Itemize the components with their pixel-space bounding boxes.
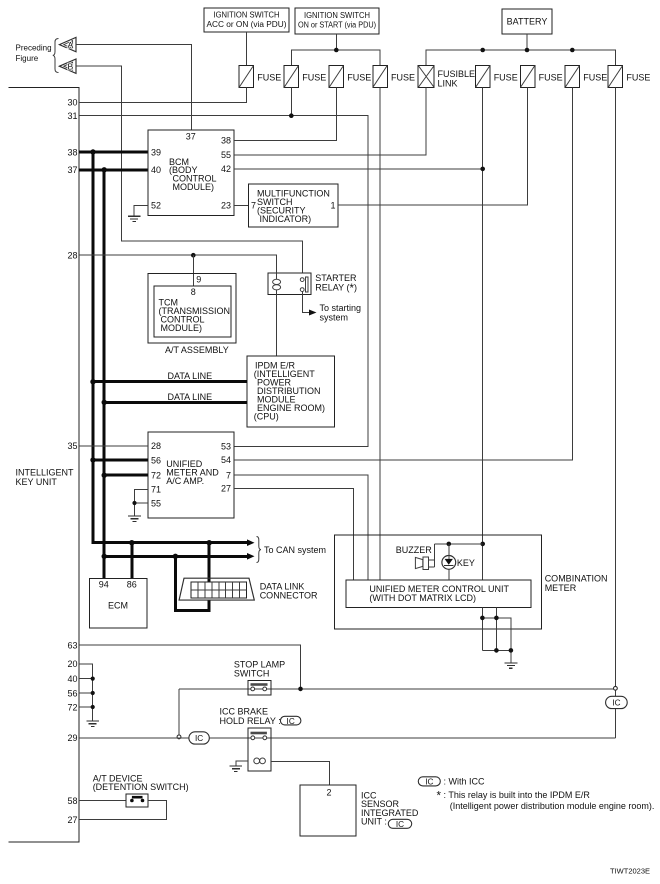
fuse F6 column <box>482 88 484 581</box>
svg-text:FUSE: FUSE <box>347 73 371 83</box>
svg-text:(WITH DOT MATRIX LCD): (WITH DOT MATRIX LCD) <box>369 593 476 603</box>
ground at ICC relay coil <box>229 766 242 771</box>
A/T device detention switch <box>126 794 148 807</box>
svg-text:52: 52 <box>151 201 161 211</box>
fuse F1 <box>239 66 254 88</box>
starter relay coil <box>273 273 281 295</box>
wire battery rail <box>426 50 615 66</box>
wire 63 to stop lamp circuit <box>79 645 301 689</box>
wire unified meter pin 55 to ground <box>135 503 149 516</box>
wire starter relay coil to IPDM <box>275 295 277 356</box>
svg-text:54: 54 <box>221 455 231 465</box>
svg-text:FUSE: FUSE <box>583 73 607 83</box>
ground at unified meter <box>128 516 141 521</box>
svg-text:40: 40 <box>67 674 77 684</box>
svg-text:To starting: To starting <box>320 303 362 313</box>
bold wire CAN-L to unified meter pin 72 <box>104 474 148 477</box>
svg-text:ACC or ON (via PDU): ACC or ON (via PDU) <box>207 20 287 29</box>
svg-text:IC: IC <box>425 778 433 787</box>
svg-text:38: 38 <box>67 147 77 157</box>
junction battery rail / fuse 8 <box>570 48 575 53</box>
wire 30 to fuse F1 <box>79 88 246 103</box>
BCM (body control module) U:BCM <box>148 130 234 216</box>
svg-text:FUSE: FUSE <box>539 73 563 83</box>
svg-text:A/T ASSEMBLY: A/T ASSEMBLY <box>165 345 229 355</box>
svg-text:BUZZER: BUZZER <box>396 545 433 555</box>
junction data line 1 / CAN-H <box>90 379 95 384</box>
wire buzzer feed <box>429 544 435 567</box>
svg-text:7: 7 <box>251 201 256 211</box>
svg-text:IC: IC <box>287 717 295 726</box>
connector circle on line 29 <box>177 735 181 739</box>
svg-text:Figure: Figure <box>16 54 39 63</box>
connector triangle B <box>59 59 76 73</box>
svg-text:KEY UNIT: KEY UNIT <box>16 477 58 487</box>
svg-text:37: 37 <box>67 165 77 175</box>
svg-text:A/C AMP.: A/C AMP. <box>166 476 204 486</box>
svg-text:system: system <box>320 313 349 323</box>
svg-text:28: 28 <box>151 441 161 451</box>
wire unified meter pin 7 to combination meter <box>234 475 368 580</box>
svg-text:CONNECTOR: CONNECTOR <box>260 591 318 601</box>
svg-text:39: 39 <box>151 147 161 157</box>
starter relay box <box>268 273 311 294</box>
svg-text:72: 72 <box>151 471 161 481</box>
wire UMCU ground jumper top <box>482 618 511 651</box>
fuse F6 <box>475 66 490 88</box>
svg-text:56: 56 <box>151 455 161 465</box>
junction ground leg1 top <box>480 616 485 621</box>
wire key LED to UMCU <box>448 569 450 580</box>
CAN-H bus vertical (bold) <box>93 152 247 543</box>
wire from connector B to starter relay contact <box>76 66 302 272</box>
svg-text:SWITCH: SWITCH <box>234 668 270 678</box>
svg-text:LINK: LINK <box>438 79 458 89</box>
svg-text:METER: METER <box>545 583 577 593</box>
svg-text:ECM: ECM <box>108 601 128 611</box>
junction stub 72 <box>91 705 95 709</box>
starter relay label <box>315 273 357 295</box>
ECM box <box>89 579 147 629</box>
svg-text:IC: IC <box>396 820 404 829</box>
connector circle on F9 column <box>614 686 618 690</box>
svg-text:ON or START (via PDU): ON or START (via PDU) <box>298 20 376 29</box>
svg-text:7: 7 <box>226 471 231 481</box>
wire UMCU ground rail bottom <box>482 650 511 663</box>
svg-text:38: 38 <box>221 136 231 146</box>
ground at BCM pin 52 <box>128 216 141 221</box>
svg-text:28: 28 <box>67 251 77 261</box>
svg-text:UNIT :: UNIT : <box>361 817 387 827</box>
svg-text:(CPU): (CPU) <box>254 411 279 421</box>
svg-text:IGNITION SWITCH: IGNITION SWITCH <box>214 11 280 20</box>
svg-text:COMBINATION: COMBINATION <box>545 574 608 584</box>
svg-text:56: 56 <box>67 688 77 698</box>
junction ground leg2 bottom <box>494 648 499 653</box>
svg-text:(DETENTION SWITCH): (DETENTION SWITCH) <box>93 782 189 792</box>
data link connector <box>179 578 254 600</box>
wire stub pin 56 <box>79 692 93 694</box>
wire 35 to unified meter pin 28 <box>79 445 148 447</box>
wire UMCU ground leg 2 <box>495 608 497 651</box>
ICC sensor label <box>361 791 419 827</box>
bold wire CAN2 to DLC bottom <box>175 556 209 610</box>
svg-text:35: 35 <box>67 441 77 451</box>
fuse F3 <box>329 66 344 88</box>
svg-text:20: 20 <box>67 659 77 669</box>
wire detention switch to pin 27 <box>79 801 167 820</box>
data line wire 2 (bold) <box>104 401 247 404</box>
fuse F9 <box>608 66 623 88</box>
junction CAN2/ECM94 <box>102 554 107 559</box>
intelligent key unit box (open left) <box>9 88 80 843</box>
data line wire 1 (bold) <box>93 380 247 383</box>
unified meter control unit box <box>346 580 531 608</box>
A/T device label <box>93 774 189 792</box>
ignition switch ON/START source box <box>295 8 379 34</box>
junction CAN-L pin72 <box>102 473 107 478</box>
junction F6/BCM42 <box>480 167 485 172</box>
svg-text:23: 23 <box>221 201 231 211</box>
ground at stub pins <box>86 721 99 726</box>
TCM (transmission control module) <box>154 286 231 337</box>
junction wire28/TCM <box>191 253 196 258</box>
junction CAN1/DLC <box>207 540 212 545</box>
svg-text:To CAN system: To CAN system <box>264 545 326 555</box>
wire 58 to detention switch <box>79 800 126 802</box>
wire from connector A to BCM pin 37 <box>76 45 191 130</box>
wire fuse F2 drop <box>290 88 292 116</box>
wire unified meter pin 54 from fuse F8 <box>234 88 572 460</box>
svg-text:27: 27 <box>221 484 231 494</box>
buzzer symbol <box>415 557 428 570</box>
svg-text:IGNITION SWITCH: IGNITION SWITCH <box>304 11 370 20</box>
svg-text:55: 55 <box>221 150 231 160</box>
IC oval after hold relay label <box>280 716 301 726</box>
wire unified meter pin 71 to ground <box>135 489 149 503</box>
svg-text:FUSE: FUSE <box>626 73 650 83</box>
wire BCM pin 52 to ground <box>134 205 148 216</box>
fuse F4 column to combination meter <box>379 88 381 581</box>
svg-text:IC: IC <box>195 734 203 743</box>
junction CAN-L <box>102 167 107 172</box>
svg-text:(Intelligent power distributio: (Intelligent power distribution module e… <box>450 801 655 811</box>
wire BCM pin 38 from fuse F3 <box>234 88 336 141</box>
junction CAN1/ECM86 <box>129 540 134 545</box>
wire key illumination rail <box>435 543 483 545</box>
svg-text:37: 37 <box>186 132 196 142</box>
wire 29 <box>79 737 615 739</box>
junction fuse F6 / key illumination <box>480 542 485 547</box>
svg-text:72: 72 <box>67 702 77 712</box>
junction CAN-H <box>90 149 95 154</box>
junction ground leg3 bottom <box>509 648 514 653</box>
svg-text:INTELLIGENT: INTELLIGENT <box>16 467 75 477</box>
svg-text:1: 1 <box>330 200 335 210</box>
svg-text:MODULE): MODULE) <box>173 182 215 192</box>
IC oval on F9 column <box>606 696 628 708</box>
combination meter label <box>545 574 608 594</box>
junction stub 56 <box>91 691 95 695</box>
svg-text:: With ICC: : With ICC <box>444 777 486 787</box>
IC oval after unit label <box>388 819 411 829</box>
key LED indicator <box>442 556 456 570</box>
wire relay coil to ICC sensor <box>271 762 329 786</box>
wire stub pin 40 <box>79 678 93 680</box>
svg-text:A: A <box>68 40 74 50</box>
bold wire CAN1 to DLC top <box>208 543 211 582</box>
bold wire CAN1 to ECM pin 86 <box>130 543 133 579</box>
svg-text:DATA LINE: DATA LINE <box>168 371 213 381</box>
junction battery rail / battery feed <box>525 48 530 53</box>
wire stop lamp drop to line 29 <box>178 689 180 735</box>
svg-text:KEY: KEY <box>457 558 475 568</box>
svg-text:30: 30 <box>67 98 77 108</box>
junction stub 40 <box>91 677 95 681</box>
brace for preceding figure <box>53 39 59 73</box>
junction wire31/fuse2 <box>289 113 294 118</box>
wire ACC feed to fuse 1 <box>245 32 247 66</box>
junction CAN2/DLC <box>173 554 178 559</box>
combination meter box <box>335 535 542 629</box>
svg-text:INDICATOR): INDICATOR) <box>260 214 312 224</box>
wire 28 to starter relay coil <box>79 255 276 272</box>
svg-text:9: 9 <box>196 274 201 284</box>
junction ground leg2 top <box>494 616 499 621</box>
svg-text:STARTER: STARTER <box>315 273 357 283</box>
multifunction switch (security indicator) <box>249 184 339 227</box>
brace to CAN system <box>257 537 262 563</box>
ICC brake hold relay box <box>248 728 271 771</box>
svg-text:40: 40 <box>151 165 161 175</box>
CAN-L branch to arrow (bold) <box>104 555 247 558</box>
junction key LED <box>447 542 452 547</box>
svg-text:58: 58 <box>67 796 77 806</box>
wire starter relay contact to starting system <box>302 292 309 313</box>
fuse F8 <box>565 66 580 88</box>
CAN-L bus vertical (bold) <box>103 170 106 579</box>
wire stop lamp row <box>179 688 615 690</box>
wire stub pin 72 <box>79 706 93 708</box>
arrow CAN line 2 <box>247 553 255 560</box>
arrow CAN line 1 <box>247 539 255 546</box>
CAN wire 37 (bold) to BCM pin 40 <box>79 168 148 171</box>
ICC brake hold relay label <box>220 707 281 726</box>
stop lamp switch label <box>234 659 285 678</box>
battery box <box>502 9 552 34</box>
svg-text:63: 63 <box>67 641 77 651</box>
IPDM E/R box <box>247 356 335 427</box>
junction data line 2 / CAN-L <box>102 400 107 405</box>
CAN wire 38 (bold) to BCM pin 39 <box>79 151 148 154</box>
wire BCM pin 23 to multifunction switch pin 7 <box>234 204 249 206</box>
svg-text:42: 42 <box>221 164 231 174</box>
wire multifunction pin 1 from fuse F7 <box>338 88 528 206</box>
connector triangle A <box>59 37 76 51</box>
fuse F9 column down right side <box>614 88 616 738</box>
intelligent key unit label <box>16 467 75 487</box>
svg-text:71: 71 <box>151 485 161 495</box>
ICC sensor integrated unit box <box>300 785 356 836</box>
svg-text:27: 27 <box>67 815 77 825</box>
wire ON/START feed <box>335 34 337 50</box>
wire unified meter pin 27 to combination meter <box>234 488 354 580</box>
legend asterisk note <box>437 790 655 811</box>
wire relay coil to ground <box>236 761 248 766</box>
fuse F4 <box>373 66 388 88</box>
preceding figure label <box>16 44 52 63</box>
svg-text:BATTERY: BATTERY <box>507 17 548 27</box>
stop lamp switch <box>248 681 271 695</box>
svg-text:94: 94 <box>99 579 109 589</box>
svg-text:FUSE: FUSE <box>302 73 326 83</box>
ICC relay coil <box>254 758 260 764</box>
svg-text:TIWT2023E: TIWT2023E <box>610 867 650 876</box>
svg-text:FUSE: FUSE <box>494 73 518 83</box>
arrow to starting system <box>309 310 317 316</box>
starter relay contact <box>300 277 308 292</box>
to starting system label <box>320 303 362 323</box>
IC oval on wire 29 <box>189 732 209 744</box>
data link connector label <box>260 581 318 600</box>
svg-text:FUSE: FUSE <box>257 73 281 83</box>
wire TCM pin 9 drop <box>192 255 194 286</box>
svg-text:2: 2 <box>326 787 331 797</box>
svg-text:31: 31 <box>67 111 77 121</box>
junction pin55/pin71 ground <box>132 501 136 505</box>
wire BCM pin 55 from fusible link <box>234 88 426 155</box>
junction battery rail / fuse 6 <box>480 48 485 53</box>
legend IC oval <box>418 777 440 787</box>
bold wire CAN-H to unified meter pin 56 <box>93 459 148 462</box>
svg-text:86: 86 <box>127 579 137 589</box>
junction wire63/stop lamp row <box>298 687 303 692</box>
wire ON/START rail <box>291 50 380 66</box>
svg-text:MODULE): MODULE) <box>161 323 203 333</box>
fuse F2 <box>284 66 299 88</box>
svg-text:HOLD RELAY :: HOLD RELAY : <box>220 716 281 726</box>
svg-text:DATA LINE: DATA LINE <box>168 392 213 402</box>
svg-text:B: B <box>68 61 74 71</box>
wire stub pin 20 <box>79 664 93 721</box>
junction CAN-H pin56 <box>90 457 95 462</box>
junction ON rail / fuse 3 <box>334 48 339 53</box>
svg-text:Preceding: Preceding <box>16 44 52 53</box>
svg-text:FUSE: FUSE <box>391 73 415 83</box>
svg-text:55: 55 <box>151 498 161 508</box>
wire key LED top <box>448 544 450 556</box>
unified meter and A/C amp box <box>148 432 234 518</box>
wire 31 to unified meter pin 53 column <box>79 116 368 447</box>
A/T assembly outer box <box>148 274 236 344</box>
svg-text:29: 29 <box>67 733 77 743</box>
fusible link FL <box>418 66 434 88</box>
fuse F7 <box>520 66 535 88</box>
svg-text:53: 53 <box>221 442 231 452</box>
wire UMCU ground leg 1 <box>481 608 483 651</box>
ignition switch ACC source box <box>204 8 289 32</box>
ground at combination meter <box>505 663 518 668</box>
svg-text:8: 8 <box>191 287 196 297</box>
svg-text:IC: IC <box>612 699 620 708</box>
wire battery feed <box>526 34 528 50</box>
wire BCM pin 42 from fuse F6 <box>234 168 483 170</box>
